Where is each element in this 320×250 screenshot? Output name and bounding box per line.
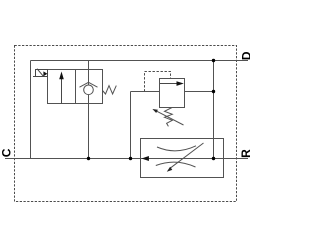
relief valve U2 adjustment arrow	[152, 109, 183, 125]
wire: relief valve right port	[185, 91, 214, 93]
enclosure (dashed manifold boundary)	[15, 46, 237, 202]
flow control left flow arrowhead	[142, 156, 149, 161]
valve V1 body (2/2 directional valve)	[48, 70, 103, 104]
wire: D branch vertical right	[213, 61, 215, 159]
wire: D line (top)	[31, 60, 249, 62]
flow control adjustment arrow	[167, 143, 204, 172]
wire: main bottom line C to R	[5, 158, 248, 160]
relief valve U2 internal flow arrow	[160, 81, 184, 86]
flow control throttle lower arc	[156, 162, 196, 167]
wire: relief valve riser down	[130, 92, 132, 159]
junction dot relief riser/bottom	[129, 157, 132, 160]
flow control throttle upper arc	[157, 146, 196, 151]
svg-text:D: D	[240, 51, 250, 60]
relief valve U2 body	[160, 79, 185, 108]
wire: left riser from C line to D line	[30, 61, 32, 159]
relief valve U2 pilot line (dashed)	[145, 72, 171, 92]
junction dot right branch/bottom	[212, 157, 215, 160]
junction dot relief right port	[212, 90, 215, 93]
valve V1 check valve (seat and ball)	[80, 82, 98, 94]
valve V1 solenoid actuator	[33, 69, 48, 77]
junction dot valve/bottom	[87, 157, 90, 160]
valve V1 return spring	[103, 86, 117, 94]
valve V1 left position flow arrow	[59, 72, 64, 104]
relief valve U2 spring	[165, 108, 173, 127]
svg-text:C: C	[0, 148, 13, 157]
flow control valve box	[141, 139, 224, 178]
junction dot D line/right branch	[212, 59, 215, 62]
svg-text:R: R	[239, 149, 250, 158]
wire: valve branch vertical	[88, 61, 90, 159]
wire: relief valve left port	[131, 91, 160, 93]
